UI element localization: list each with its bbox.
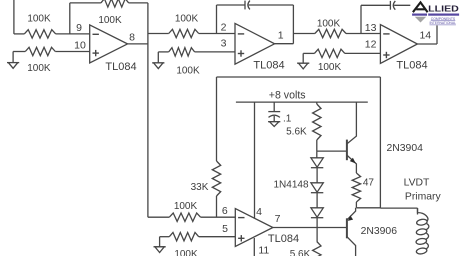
svg-text:33K: 33K (191, 182, 209, 193)
svg-text:1N4148: 1N4148 (273, 180, 308, 191)
svg-text:100K: 100K (174, 201, 198, 212)
svg-text:100K: 100K (98, 15, 122, 26)
svg-text:100K: 100K (175, 14, 199, 25)
svg-text:TL084: TL084 (268, 233, 299, 245)
svg-text:100K: 100K (317, 18, 341, 29)
svg-text:47: 47 (363, 178, 375, 189)
svg-text:100K: 100K (27, 14, 51, 25)
svg-text:2N3906: 2N3906 (361, 226, 398, 237)
svg-text:.1: .1 (283, 114, 292, 125)
svg-text:TL084: TL084 (105, 61, 136, 73)
svg-text:7: 7 (275, 213, 281, 225)
svg-text:100K: 100K (176, 66, 200, 77)
svg-text:Primary: Primary (405, 191, 442, 202)
svg-text:12: 12 (365, 39, 377, 51)
svg-text:8: 8 (129, 31, 135, 43)
svg-text:14: 14 (419, 30, 431, 42)
svg-text:100K: 100K (174, 249, 198, 256)
svg-text:TL084: TL084 (396, 60, 427, 72)
svg-text:100K: 100K (318, 62, 342, 73)
svg-text:13: 13 (365, 22, 377, 34)
svg-text:5: 5 (222, 223, 228, 235)
svg-text:9: 9 (76, 22, 82, 34)
svg-text:5.6K: 5.6K (290, 249, 311, 256)
svg-text:3: 3 (221, 38, 227, 50)
svg-text:TL084: TL084 (253, 59, 284, 71)
svg-text:2N3904: 2N3904 (386, 143, 423, 154)
svg-text:LVDT: LVDT (404, 178, 430, 189)
svg-text:4: 4 (256, 206, 262, 218)
svg-text:+8 volts: +8 volts (269, 90, 306, 102)
svg-text:100K: 100K (27, 63, 51, 74)
svg-text:2: 2 (221, 22, 227, 34)
svg-text:LLIED: LLIED (428, 5, 459, 14)
svg-text:6: 6 (222, 205, 228, 217)
svg-text:5.6K: 5.6K (286, 127, 307, 138)
svg-text:11: 11 (258, 245, 269, 256)
svg-text:INTERNATIONAL: INTERNATIONAL (430, 21, 457, 25)
svg-text:1: 1 (278, 29, 284, 41)
svg-text:10: 10 (74, 39, 86, 51)
